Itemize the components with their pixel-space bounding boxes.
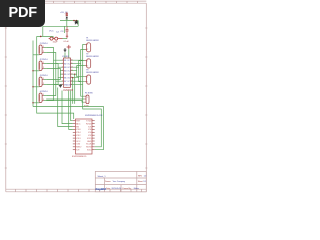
wire from +V flag to U1 <box>68 49 70 58</box>
sheet background <box>0 0 149 198</box>
svg-text:1: 1 <box>43 94 44 96</box>
svg-text:GND: GND <box>87 141 92 143</box>
U1 pin numbers and names <box>62 60 73 87</box>
svg-text:2023-05-20: 2023-05-20 <box>112 188 122 190</box>
svg-text:MG995-SERVO: MG995-SERVO <box>86 56 99 58</box>
ground GND3 above U1 <box>64 48 67 52</box>
wire bus L1 <box>46 48 61 61</box>
wire y36.4 <box>37 35 54 37</box>
svg-text:IB3: IB3 <box>64 67 67 69</box>
svg-text:TXD0: TXD0 <box>86 121 92 123</box>
svg-text:Maker: Maker <box>134 187 140 190</box>
svg-text:MOSI: MOSI <box>86 147 92 149</box>
sheet frame left border <box>5 3 7 192</box>
sheet frame top band <box>4 1 147 3</box>
svg-text:ESP8266MOD-12F: ESP8266MOD-12F <box>85 115 103 117</box>
value label C5 <box>64 41 70 43</box>
svg-text:J3 PH2.0: J3 PH2.0 <box>40 75 49 77</box>
U2 right pins <box>92 121 95 150</box>
wire bus R7 <box>73 81 85 96</box>
wire bus L3 <box>46 64 61 68</box>
wire bus R3 <box>73 61 85 68</box>
junction dot F <box>72 77 73 78</box>
svg-text:5: 5 <box>62 74 63 76</box>
junction dot A <box>73 20 75 22</box>
svg-text:1.0: 1.0 <box>144 176 147 178</box>
wire bus vertical extensions right <box>73 60 83 104</box>
svg-text:2: 2 <box>43 67 44 69</box>
wire drop x42.8 <box>42 26 44 36</box>
wire right drop x78.2 <box>77 21 79 27</box>
svg-text:2: 2 <box>43 99 44 101</box>
svg-text:4: 4 <box>62 70 63 72</box>
svg-text:IB6: IB6 <box>64 78 67 80</box>
U2 pin names left <box>76 121 82 152</box>
capacitor C5 vertical <box>66 34 68 39</box>
wire bus L4 <box>46 69 61 71</box>
svg-text:7: 7 <box>62 81 63 83</box>
IC U1 body <box>62 58 73 87</box>
svg-text:MG995-SERVO: MG995-SERVO <box>86 72 99 74</box>
svg-text:Sheet: Sheet <box>138 180 143 183</box>
connector P3 <box>85 70 100 84</box>
wire drop x57.7 to U2 pin3 <box>58 88 73 127</box>
svg-text:2: 2 <box>62 63 63 65</box>
wire bus R8 <box>73 85 83 101</box>
svg-text:IB5: IB5 <box>64 74 67 76</box>
junction dot D2 <box>32 86 33 87</box>
svg-text:EasyEDA: EasyEDA <box>96 187 107 191</box>
svg-text:Drawn:: Drawn: <box>105 180 111 183</box>
wire from GND3 to U1 <box>64 53 66 59</box>
wire bus L8 <box>46 85 61 101</box>
title text REV <box>138 176 146 178</box>
svg-text:2: 2 <box>43 51 44 53</box>
wire bus L2 <box>46 53 61 64</box>
op-amp U1 label <box>62 56 70 58</box>
label C2 <box>56 31 60 33</box>
svg-text:MG995-SERVO: MG995-SERVO <box>86 40 99 42</box>
svg-text:1: 1 <box>43 46 44 48</box>
svg-text:J1 PH2.0: J1 PH2.0 <box>40 43 49 45</box>
svg-text:1: 1 <box>87 44 88 46</box>
wire drop x70.7 to U2 pin1 <box>71 91 73 121</box>
module U2 body <box>76 119 93 154</box>
svg-text:IB7: IB7 <box>64 81 67 83</box>
svg-text:IB4: IB4 <box>64 71 67 73</box>
wire to P4 p2 <box>46 98 84 100</box>
label C3 <box>61 31 65 33</box>
ground GND1 (chassis X) <box>75 21 78 25</box>
connector P4 <box>84 93 92 104</box>
title text sheet no <box>138 180 146 183</box>
title block outline <box>95 171 146 191</box>
junction dot B <box>76 20 78 22</box>
wire top rail y20.5 <box>60 20 78 22</box>
wire drop x53.2 <box>52 36 54 38</box>
sheet frame right border <box>145 3 147 192</box>
connector J1 <box>33 43 49 55</box>
fuse F1 <box>66 12 68 16</box>
capacitor C4 vertical <box>66 26 69 33</box>
svg-text:OC3: OC3 <box>67 67 70 69</box>
connector P2 <box>85 54 100 68</box>
svg-text:J4 PH2.0: J4 PH2.0 <box>40 91 49 93</box>
svg-text:1: 1 <box>87 60 88 62</box>
wire bus L7 <box>46 81 61 95</box>
svg-text:P4 SG90: P4 SG90 <box>85 93 93 95</box>
svg-text:SCLK: SCLK <box>86 144 92 146</box>
svg-text:2: 2 <box>87 65 88 67</box>
svg-text:0.1uF: 0.1uF <box>64 41 70 43</box>
svg-text:VCC: VCC <box>49 31 54 33</box>
title text company <box>105 180 125 183</box>
wire bus R1 <box>73 45 85 61</box>
junction dot C <box>40 36 42 38</box>
wire chain drop x66.8 <box>66 21 68 27</box>
junction dot D1 <box>32 70 33 71</box>
wire bus R6 <box>73 78 85 82</box>
svg-text:2: 2 <box>87 49 88 51</box>
wire left bus x36.7 <box>36 36 38 113</box>
U2 value label <box>72 156 87 158</box>
svg-text:1: 1 <box>87 76 88 78</box>
svg-text:Your Company: Your Company <box>113 180 125 183</box>
svg-text:OC7: OC7 <box>67 81 70 83</box>
resistor R1 (ring) <box>49 37 53 40</box>
title text TITLE <box>98 175 107 178</box>
junction dot E <box>74 74 75 75</box>
wire bus R5 <box>73 74 85 77</box>
PDF badge overlay <box>0 0 45 27</box>
connector J3 <box>33 75 49 87</box>
svg-text:ADC: ADC <box>76 122 81 125</box>
U2 pin names right <box>86 121 92 152</box>
connector J2 <box>33 59 49 71</box>
svg-text:1: 1 <box>62 60 63 62</box>
resistor R2 (ring) <box>53 37 63 40</box>
svg-text:OC4: OC4 <box>67 71 70 73</box>
wire bus vertical extensions left <box>54 60 61 84</box>
wire bus R2 <box>73 50 85 64</box>
svg-text:2: 2 <box>43 83 44 85</box>
svg-text:2: 2 <box>87 81 88 83</box>
junction dot D3 <box>32 102 33 103</box>
net label +5V top <box>60 12 68 14</box>
svg-text:1: 1 <box>43 62 44 64</box>
wire bus L5 <box>46 74 61 79</box>
wire loop2 U1 pin to U2 right pin10 <box>83 101 102 147</box>
wire left bus x33 <box>32 41 34 107</box>
svg-text:VCC: VCC <box>76 141 81 143</box>
wire bus L6 <box>46 78 61 85</box>
svg-text:OC6: OC6 <box>67 78 70 80</box>
logo EasyEDA <box>96 187 107 191</box>
title text date <box>106 187 121 190</box>
wire drop x64.5 <box>64 26 66 33</box>
svg-text:1/1: 1/1 <box>143 181 146 183</box>
wire bus R4 <box>73 66 85 71</box>
svg-text:IB2: IB2 <box>64 64 67 66</box>
svg-text:ESP8266MOD: ESP8266MOD <box>72 156 87 158</box>
wire ring to cap <box>63 38 68 40</box>
diode D1 <box>66 17 68 21</box>
wire bottom rail y113.1 <box>37 113 74 119</box>
connector P1 <box>85 38 100 52</box>
title text drawn by <box>123 187 140 190</box>
module U2 label <box>85 115 103 117</box>
svg-text:MISO: MISO <box>76 147 82 149</box>
P4 value label <box>84 106 89 108</box>
sheet frame bottom band <box>6 189 147 192</box>
svg-text:3: 3 <box>62 67 63 69</box>
svg-text:OC2: OC2 <box>67 64 70 66</box>
U2 left pins <box>73 121 76 150</box>
wire rail y26.3 <box>43 25 78 27</box>
U1 value label <box>63 89 74 92</box>
svg-text:OC5: OC5 <box>67 74 70 76</box>
svg-text:J2 PH2.0: J2 PH2.0 <box>40 59 49 61</box>
svg-text:1: 1 <box>43 78 44 80</box>
svg-text:Sheet_1: Sheet_1 <box>98 175 107 178</box>
wire loop1 x33 to U2 right pin11 <box>33 107 103 150</box>
net label VCC mid <box>49 31 54 33</box>
ground GND2 <box>59 85 62 88</box>
svg-text:OC1: OC1 <box>67 60 70 62</box>
svg-text:Drawn By:: Drawn By: <box>123 187 132 190</box>
svg-text:6: 6 <box>62 77 63 79</box>
svg-text:9: 9 <box>71 84 72 86</box>
wire drop x68.7 to U2 pin4 <box>69 91 73 130</box>
svg-text:1: 1 <box>87 97 88 99</box>
wire drop x62 to U2 pin2 <box>62 91 73 124</box>
svg-text:RXD0: RXD0 <box>86 123 92 125</box>
value label under R2 <box>53 41 59 43</box>
connector J4 <box>33 91 49 103</box>
power flag +V (red cross) <box>67 45 71 49</box>
svg-text:Date:: Date: <box>106 187 111 190</box>
svg-text:IB1: IB1 <box>64 60 67 62</box>
wire J4 p2 to P4 p3 <box>46 101 84 103</box>
svg-text:10uF: 10uF <box>53 41 59 43</box>
